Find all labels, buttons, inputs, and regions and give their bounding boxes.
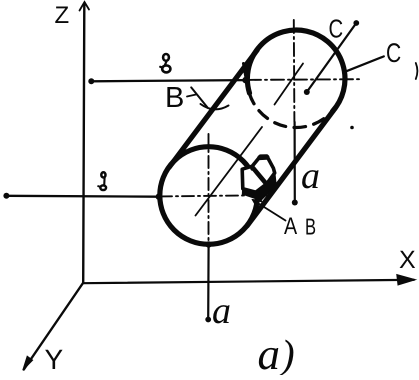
- node dot at lower circle bottom: [205, 241, 211, 247]
- node dot c: [353, 20, 359, 26]
- cylinder upper circle visible arc (back face): [247, 30, 345, 111]
- Y axis: [24, 283, 83, 370]
- label b lower (script): [98, 172, 106, 190]
- block arrow peak thick top: [260, 155, 267, 160]
- Y axis arrowhead: [23, 356, 33, 370]
- Z axis arrowhead: [80, 2, 90, 11]
- leader line for A: [253, 200, 286, 221]
- node dot on lower circle left edge: [156, 193, 163, 200]
- projection line b lower (horizontal): [6, 195, 159, 198]
- svg-text:A: A: [284, 213, 297, 240]
- node dot at Z axis (b upper): [88, 78, 94, 84]
- block arrow junction blob: [250, 166, 255, 171]
- block arrow head base line: [252, 167, 266, 183]
- A leader arrowhead: [253, 200, 261, 207]
- svg-text:a: a: [212, 290, 231, 332]
- X axis arrowhead: [397, 275, 416, 285]
- svg-text:C: C: [329, 14, 344, 44]
- cylinder left silhouette tangent: [169, 50, 257, 168]
- block arrow face (white with outline): [242, 156, 275, 192]
- projection line a lower (vertical): [207, 244, 210, 320]
- svg-text:B: B: [165, 82, 184, 114]
- projection line a upper (vertical): [294, 122, 296, 203]
- upper circle centerline vertical (dash-dot): [293, 20, 296, 122]
- stray dot right of tangent: [350, 126, 354, 130]
- cylinder right silhouette tangent: [247, 108, 335, 226]
- label b upper (script): [160, 54, 170, 72]
- bold stub near b' dot: [244, 64, 247, 79]
- node dot left end (b lower): [3, 193, 9, 199]
- cylinder upper circle hidden arc (dashed): [249, 93, 332, 127]
- Z axis: [83, 5, 84, 283]
- small mark at right edge: [416, 63, 418, 79]
- B label dash: [187, 95, 196, 97]
- lower circle centerline vertical (dash-dot): [208, 134, 210, 243]
- leader line for C label: [344, 56, 384, 72]
- cylinder axis slash line: [196, 127, 263, 216]
- svg-text:a: a: [301, 155, 320, 197]
- block arrow 3d side (black): [243, 173, 276, 200]
- tick arc marking B on silhouette: [201, 104, 229, 109]
- leader line for B: [191, 87, 207, 107]
- node dot a': [292, 200, 298, 206]
- projection line b upper (horizontal): [91, 80, 245, 81]
- svg-text:Z: Z: [55, 2, 70, 29]
- node dot b' on cylinder edge: [242, 77, 248, 83]
- upper circle center slash: [275, 64, 304, 105]
- svg-text:X: X: [399, 246, 416, 274]
- node dot C: [304, 89, 310, 95]
- svg-text:B: B: [305, 214, 316, 240]
- svg-text:Y: Y: [45, 344, 64, 375]
- lower circle centerline horizontal (dash-dot): [160, 195, 268, 196]
- projection line C to c (diagonal): [307, 23, 357, 92]
- svg-text:C: C: [386, 38, 401, 68]
- upper circle centerline horizontal (dash-dot): [248, 78, 362, 81]
- cylinder lower circle (front face): [160, 147, 258, 245]
- svg-text:): ): [279, 331, 295, 375]
- X axis: [83, 280, 414, 283]
- svg-text:a: a: [258, 329, 281, 375]
- node dot a: [205, 317, 211, 323]
